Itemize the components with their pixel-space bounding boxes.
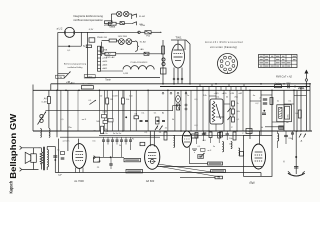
- resistor R-note: [105, 21, 113, 24]
- svg-text:Kapsch: Kapsch: [9, 181, 15, 194]
- OT primary: [40, 152, 43, 165]
- resistor RA4: [47, 97, 50, 104]
- svg-text:0,2: 0,2: [256, 103, 260, 105]
- wire x148.1: [147, 90, 149, 131]
- wire lamp right: [75, 31, 104, 33]
- wire x104.4: [103, 90, 105, 131]
- tie pot 2: [224, 103, 230, 105]
- svg-text:Drähte: Drähte: [275, 82, 282, 85]
- svg-text:(m): (m): [217, 177, 220, 179]
- hang res 1: [195, 133, 198, 139]
- capacitor C-ant: [287, 84, 289, 88]
- V3 bottom lead: [189, 147, 191, 163]
- V3 part right: [220, 132, 223, 137]
- sub res hatched: [279, 107, 282, 118]
- svg-text:5k: 5k: [261, 127, 264, 129]
- cap small right2: [291, 132, 294, 134]
- V1 top lead: [78, 139, 80, 149]
- svg-text:N: N: [83, 45, 85, 48]
- svg-text:220p: 220p: [288, 138, 292, 140]
- V2 res a: [164, 132, 167, 140]
- OT sec bot wire: [39, 147, 42, 149]
- rail junction dots: [56, 90, 58, 92]
- small circles x186: [185, 104, 187, 106]
- svg-text:0,5: 0,5: [61, 119, 65, 121]
- TW1 pin 3: [181, 68, 183, 84]
- wire x167.9: [167, 90, 169, 131]
- svg-text:1W: 1W: [248, 131, 251, 133]
- mid cluster box1: [102, 115, 107, 118]
- brace rows23: [135, 41, 139, 51]
- TW1 grid: [174, 53, 183, 55]
- switch arrow big: [64, 72, 71, 79]
- V2 top lead: [149, 131, 151, 146]
- left rail x33: [32, 85, 34, 132]
- svg-text:6,3V: 6,3V: [89, 29, 94, 31]
- wire x130.6: [130, 90, 132, 131]
- socket pins: [232, 64, 235, 67]
- wire x186: [185, 90, 187, 131]
- V2 coil: [174, 136, 175, 148]
- wire x124: [123, 90, 125, 131]
- wire col to coil2: [101, 70, 123, 72]
- wire x209: [208, 90, 210, 131]
- wire x294: [293, 90, 295, 131]
- label box V2a: [124, 158, 141, 161]
- res cluster mid: [156, 117, 160, 124]
- scale lamp L3: [124, 11, 129, 16]
- svg-text:P02: P02: [146, 36, 151, 38]
- svg-text:2x: 2x: [277, 101, 280, 103]
- svg-text:+25B: +25B: [102, 50, 108, 52]
- V4 outer box: [244, 135, 272, 176]
- wire x66: [67, 90, 69, 151]
- tube V3 envelope: [182, 131, 191, 147]
- box an F: [201, 149, 206, 152]
- OT sec top wire: [47, 146, 55, 148]
- wire RC1 stubs: [106, 90, 108, 98]
- svg-text:1M: 1M: [110, 99, 113, 101]
- rail mid2 y135: [99, 134, 250, 136]
- svg-text:4n5: 4n5: [202, 140, 206, 142]
- wire x174.9: [174, 90, 176, 131]
- rail C y90.3: [33, 89, 310, 91]
- box left of V4: [240, 152, 244, 157]
- svg-text:25n: 25n: [234, 97, 238, 99]
- svg-text:1n: 1n: [187, 95, 190, 97]
- tie right 2: [272, 121, 284, 123]
- svg-text:0,1M: 0,1M: [42, 101, 47, 103]
- svg-text:1M: 1M: [286, 122, 289, 124]
- svg-text:Ansicht Röhrensockel: Ansicht Röhrensockel: [205, 40, 243, 44]
- V2 inner circle: [150, 160, 154, 164]
- svg-text:+A10: +A10: [87, 75, 93, 78]
- diag wire 2: [160, 167, 220, 178]
- box right of V1: [93, 157, 99, 162]
- hang res 3: [218, 133, 221, 139]
- wire x57 lower: [56, 90, 58, 137]
- svg-text:5n: 5n: [57, 150, 59, 152]
- tube TW1 envelope: [172, 44, 185, 68]
- svg-text:0,1: 0,1: [67, 50, 71, 52]
- wire x181: [180, 90, 182, 131]
- svg-text:0,1: 0,1: [142, 113, 146, 115]
- svg-text:A4: A4: [44, 98, 48, 101]
- tuning cap C-var: [40, 115, 43, 118]
- grid resistor chain: [101, 126, 104, 133]
- wire row2: [102, 40, 110, 42]
- wire lamp bottom loop: [58, 45, 82, 47]
- TW1 left circle a: [162, 58, 165, 61]
- TW1 pin 1: [173, 68, 175, 84]
- resistor RC1: [106, 98, 109, 104]
- box 1W: [246, 129, 252, 134]
- box MO: [198, 155, 204, 159]
- X box on row3 wire: [144, 52, 149, 55]
- tie pot 3: [216, 116, 224, 118]
- right small parts: [279, 126, 284, 129]
- scale lamp L4: [119, 39, 125, 45]
- tie right 4: [284, 103, 294, 105]
- svg-text:(-): (-): [283, 161, 285, 163]
- rail comb stubs: [196, 87, 198, 91]
- wire row3 to TW1: [135, 53, 163, 55]
- wire x79: [60, 90, 62, 131]
- resistor R-right2: [270, 98, 273, 105]
- wire +A10: [85, 77, 160, 79]
- wire row1: [111, 13, 116, 15]
- box on rail: [81, 86, 93, 89]
- svg-text:50k: 50k: [126, 99, 130, 101]
- svg-text:+4B5: +4B5: [213, 93, 219, 95]
- box right of lamp: [89, 38, 95, 42]
- hang coil: [231, 142, 232, 149]
- svg-text:+A25: +A25: [102, 60, 108, 63]
- svg-text:Bemessungsspannung: Bemessungsspannung: [64, 64, 87, 66]
- wire TW1 right v1: [184, 40, 186, 50]
- svg-text:4µF: 4µF: [58, 175, 62, 177]
- svg-text:+A: +A: [300, 140, 303, 143]
- junction dot lamp loop: [68, 45, 70, 47]
- V4 left coil: [239, 148, 240, 155]
- resistor R-skala: [108, 22, 116, 25]
- coil right of box: [278, 134, 279, 142]
- pin terminal circles: [162, 92, 164, 94]
- svg-text:an F: an F: [208, 150, 213, 152]
- svg-text:0,1: 0,1: [217, 97, 221, 99]
- svg-text:KL.A2: KL.A2: [139, 15, 146, 18]
- small box N: [86, 45, 91, 48]
- V3 arrow: [200, 153, 205, 158]
- svg-text:0,1W: 0,1W: [123, 73, 128, 75]
- wire RC2 stubs: [122, 90, 124, 98]
- svg-text:Netz 220V: Netz 220V: [83, 83, 93, 86]
- hang res 4: [233, 132, 236, 140]
- wire y73.6: [58, 73, 68, 75]
- rail B y86.5: [160, 86, 310, 88]
- svg-text:0,1: 0,1: [198, 146, 202, 148]
- hang cap 2: [226, 133, 229, 135]
- svg-text:10/9 3W5: 10/9 3W5: [118, 36, 128, 38]
- tube V4 envelope: [252, 144, 266, 169]
- svg-text:Skala: Skala: [109, 27, 115, 29]
- svg-text:a.U.2: a.U.2: [57, 27, 63, 30]
- rail A left corner: [50, 84, 52, 91]
- cap 220p: [284, 134, 288, 136]
- dial lamp LP1: [65, 27, 75, 37]
- wire left feeder vertical: [57, 32, 59, 90]
- bottom cap row: [102, 139, 105, 141]
- OT secondary: [47, 150, 48, 168]
- table grid: [259, 55, 298, 68]
- dot ground lead: [295, 156, 297, 158]
- V1 left part b: [61, 157, 65, 159]
- res with X left: [177, 104, 180, 110]
- V3 bars: [184, 135, 190, 137]
- vertical ladder left: [101, 42, 103, 56]
- wire x297: [296, 90, 298, 131]
- svg-text:an K: an K: [82, 119, 87, 121]
- wire x216: [215, 90, 217, 131]
- svg-text:2n: 2n: [165, 128, 168, 130]
- tube V1 envelope: [72, 144, 86, 169]
- up arrows right: [299, 134, 301, 138]
- wire row1 drop: [110, 14, 112, 22]
- tube V2 envelope: [145, 145, 160, 170]
- V1 left part a: [61, 152, 65, 155]
- ground chevron: [288, 173, 305, 176]
- table cell text: [260, 56, 263, 57]
- segmented resistor column: [98, 46, 101, 71]
- tap arrows: [228, 108, 231, 112]
- wire fuse feed: [104, 31, 139, 33]
- svg-text:Ax: Ax: [156, 127, 159, 130]
- svg-text:(Bgl): (Bgl): [249, 182, 254, 185]
- wire x237: [236, 90, 238, 131]
- svg-text:PM40-110: PM40-110: [97, 37, 108, 39]
- svg-text:Bellaphon GW: Bellaphon GW: [9, 113, 18, 179]
- collector plug: [94, 156, 96, 159]
- label box M1: [208, 162, 223, 165]
- choke Dr: [275, 85, 282, 88]
- antenna insulator: [305, 79, 307, 81]
- tie right 1: [294, 95, 306, 97]
- wire x112.4: [111, 90, 113, 131]
- rail jog: [172, 106, 174, 111]
- svg-text:+A01: +A01: [102, 67, 108, 70]
- svg-text:P: P: [231, 127, 233, 129]
- bottom rail y172.5: [55, 172, 261, 174]
- wire x99.5: [99, 90, 101, 131]
- svg-text:KL.A3: KL.A3: [140, 40, 147, 43]
- wire x301: [300, 87, 302, 132]
- boxed label P80: [56, 75, 65, 78]
- fuse box row1: [120, 22, 124, 25]
- cap row drops: [103, 145, 105, 158]
- mid cluster box2: [108, 119, 113, 122]
- svg-text:mit Brummkompensation: mit Brummkompensation: [73, 18, 103, 22]
- hook row1 a: [132, 14, 137, 18]
- svg-text:10k: 10k: [203, 95, 207, 97]
- V3 cap: [203, 132, 207, 134]
- TW1 pin connectors: [173, 78, 175, 80]
- fuse circle: [138, 31, 140, 33]
- svg-text:50: 50: [100, 96, 103, 98]
- mid cluster dot: [125, 116, 127, 118]
- svg-text:4n: 4n: [253, 95, 256, 97]
- small ground sym: [192, 148, 197, 150]
- mains coil 2: [123, 66, 154, 70]
- sub block outer box: [277, 105, 292, 122]
- collector line y157: [96, 156, 125, 158]
- collector dot: [110, 156, 112, 158]
- wire x272: [271, 90, 273, 135]
- wire x306 down: [305, 87, 307, 132]
- label box M2: [211, 170, 226, 173]
- plug bottom: [20, 168, 22, 172]
- wire x296 down: [295, 131, 297, 174]
- wire fuse to tube: [140, 31, 145, 33]
- small cap mid: [109, 163, 112, 165]
- svg-text:+2B: +2B: [230, 93, 234, 95]
- V3 right box: [192, 134, 198, 138]
- rail mid3 y137.2: [60, 136, 160, 138]
- IF coil left: [40, 129, 41, 138]
- TW1 frame top: [171, 39, 186, 41]
- resistor right x299: [298, 110, 301, 118]
- wire y177.3: [180, 176, 215, 178]
- svg-text:AZ 600: AZ 600: [146, 179, 155, 183]
- antenna junction: [305, 86, 307, 88]
- junction right1: [294, 86, 296, 88]
- svg-text:25n: 25n: [68, 127, 72, 129]
- rail mid y131: [33, 130, 312, 132]
- wire x250: [249, 90, 251, 139]
- socket circle: [218, 54, 238, 74]
- wire x243: [242, 90, 244, 131]
- wire x197: [196, 90, 198, 131]
- svg-text:0,1: 0,1: [89, 100, 93, 102]
- svg-text:Fe: Fe: [132, 139, 135, 141]
- svg-text:+A05: +A05: [102, 63, 108, 66]
- antenna arrowhead: [304, 70, 308, 74]
- cap pair 1: [263, 98, 267, 100]
- wire TW1 right v2: [189, 44, 191, 84]
- svg-text:0,1A: 0,1A: [140, 24, 145, 27]
- svg-text:2x: 2x: [259, 98, 261, 100]
- wire TW1 left rail: [162, 40, 164, 84]
- svg-text:Al: Al: [162, 112, 164, 115]
- wire x230: [229, 90, 231, 131]
- resistor row2: [109, 39, 116, 42]
- svg-text:5n: 5n: [213, 146, 215, 148]
- svg-text:50k: 50k: [96, 121, 100, 123]
- wire TW1 top right: [186, 40, 190, 44]
- wire row2 right: [132, 41, 135, 43]
- wire x55.3: [54, 147, 56, 173]
- bottom rail y166.5: [157, 166, 262, 168]
- wire x224: [223, 90, 225, 131]
- bottom cap row 2: [140, 119, 143, 121]
- TW1 top lead: [177, 40, 179, 50]
- resistor row3: [105, 52, 116, 55]
- tie right 3: [250, 100, 261, 102]
- svg-text:0,5: 0,5: [93, 141, 97, 143]
- rail A y83.8: [51, 83, 310, 85]
- svg-text:TW1+A2: TW1+A2: [106, 56, 115, 59]
- svg-text:0,1: 0,1: [135, 114, 139, 116]
- TW1 anode bar: [174, 49, 183, 51]
- svg-text:an Dyn: an Dyn: [63, 141, 71, 143]
- wire x310: [309, 85, 311, 132]
- svg-text:50k: 50k: [237, 111, 240, 113]
- IF coil right: [49, 129, 50, 138]
- scale lamp L2: [117, 11, 122, 16]
- svg-text:5k: 5k: [226, 97, 229, 99]
- svg-text:PO40+PO40/RO3: PO40+PO40/RO3: [131, 62, 149, 64]
- coil small right: [299, 87, 304, 90]
- cap on ground lead: [294, 166, 298, 168]
- fuse F1: [145, 31, 151, 34]
- svg-text:AL 7000: AL 7000: [74, 179, 84, 183]
- vertical x87.5: [87, 32, 89, 78]
- svg-text:TW1+A2: TW1+A2: [102, 53, 111, 56]
- svg-text:50: 50: [159, 132, 162, 134]
- filter cap: [53, 155, 57, 157]
- svg-text:LA5: LA5: [140, 48, 145, 51]
- svg-text:0,1: 0,1: [289, 101, 293, 103]
- TW1 cathode: [174, 56, 183, 58]
- speaker wire bottom: [33, 162, 35, 169]
- TW1 left circle b: [162, 62, 165, 65]
- mid cluster box3: [103, 121, 107, 124]
- svg-text:100k: 100k: [287, 114, 289, 118]
- resistor RW1: [162, 46, 165, 54]
- pot assembly: [210, 99, 223, 124]
- wire x191: [190, 90, 192, 131]
- sub res labeled: [285, 107, 290, 120]
- svg-text:+A2: +A2: [238, 92, 243, 95]
- diag wire 1: [158, 164, 215, 173]
- svg-text:2k: 2k: [237, 103, 239, 105]
- resistor RC3: [134, 116, 139, 119]
- svg-text:1n: 1n: [229, 144, 231, 146]
- svg-text:5n: 5n: [154, 113, 157, 115]
- V3 coil: [222, 142, 223, 152]
- scale lamp L5: [126, 39, 132, 45]
- plug top: [20, 146, 22, 150]
- wire row3: [102, 53, 105, 55]
- svg-text:0,1: 0,1: [145, 132, 149, 134]
- V2 left box: [140, 142, 145, 145]
- wire V4 bottom right: [260, 173, 262, 177]
- hang res 2: [209, 132, 212, 138]
- svg-text:Taste: Taste: [105, 79, 111, 82]
- tap resistor chain: [232, 101, 235, 106]
- box ladder left: [100, 47, 103, 52]
- resistor RC2: [121, 98, 124, 104]
- tie pot 1: [209, 95, 216, 97]
- speaker wire top: [33, 148, 35, 154]
- svg-text:im Anlauf kältig: im Anlauf kältig: [68, 66, 83, 69]
- speaker cone: [25, 152, 31, 163]
- OT core: [43, 147, 45, 171]
- svg-text:+A05: +A05: [221, 92, 227, 95]
- gang arrow 2: [90, 100, 97, 105]
- wire row1 mid: [116, 23, 120, 25]
- box B01: [161, 68, 167, 74]
- wire x58.6: [58, 139, 60, 173]
